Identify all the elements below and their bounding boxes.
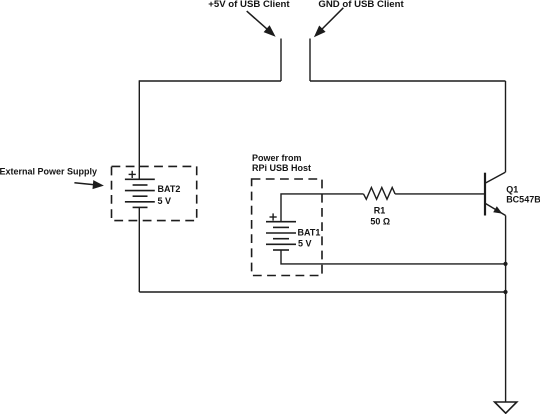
wire BAT2 minus down [138, 207, 140, 292]
svg-text:Power from: Power from [252, 153, 302, 163]
svg-text:RPi USB Host: RPi USB Host [252, 163, 311, 173]
wire base right segment [395, 193, 485, 195]
svg-text:5 V: 5 V [158, 196, 172, 206]
wire top left horizontal [139, 80, 281, 82]
svg-text:R1: R1 [374, 205, 386, 215]
enclosure dashed box External Power Supply [112, 166, 197, 220]
wire +5V client stub [280, 39, 282, 82]
svg-text:GND of USB Client: GND of USB Client [318, 0, 404, 10]
transistor Q1 [485, 172, 506, 215]
svg-text:BAT2: BAT2 [158, 184, 181, 194]
annotation arrow to GND stub [314, 8, 343, 37]
transistor Q1 value label [506, 185, 540, 205]
battery BAT2 plus sign [129, 171, 136, 178]
battery BAT1 [266, 222, 296, 250]
battery BAT2 [125, 179, 155, 207]
annotation arrow to +5V stub [247, 11, 276, 37]
wire emitter vertical [505, 216, 507, 403]
junction dot BAT2 return [503, 290, 507, 294]
svg-text:Q1: Q1 [506, 185, 518, 195]
resistor R1 [364, 188, 396, 200]
ground [495, 402, 517, 413]
junction dot BAT1 return [503, 262, 507, 266]
wire bottom horizontal [139, 291, 505, 293]
resistor R1 value label [370, 205, 390, 226]
wire collector vertical [505, 81, 507, 172]
svg-text:BAT1: BAT1 [298, 228, 321, 238]
wire BAT1 plus up and base wire left segment [281, 194, 364, 222]
wire top right horizontal [310, 80, 506, 82]
annotation arrow to external supply box [74, 180, 104, 189]
svg-text:50 Ω: 50 Ω [370, 217, 390, 227]
battery BAT1 value label [298, 228, 321, 249]
svg-text:BC547B: BC547B [506, 195, 540, 205]
svg-text:5 V: 5 V [298, 239, 312, 249]
wire GND client stub [309, 39, 311, 82]
svg-text:External Power Supply: External Power Supply [0, 167, 97, 177]
enclosure dashed box RPi USB Host [252, 179, 322, 276]
battery BAT1 plus sign [270, 213, 277, 220]
battery BAT2 value label [158, 184, 181, 206]
wire BAT1 minus down [281, 250, 506, 264]
power from RPi USB host label [252, 153, 311, 173]
wire left vertical to BAT2 plus [138, 80, 140, 179]
svg-text:+5V of USB Client: +5V of USB Client [208, 0, 290, 10]
